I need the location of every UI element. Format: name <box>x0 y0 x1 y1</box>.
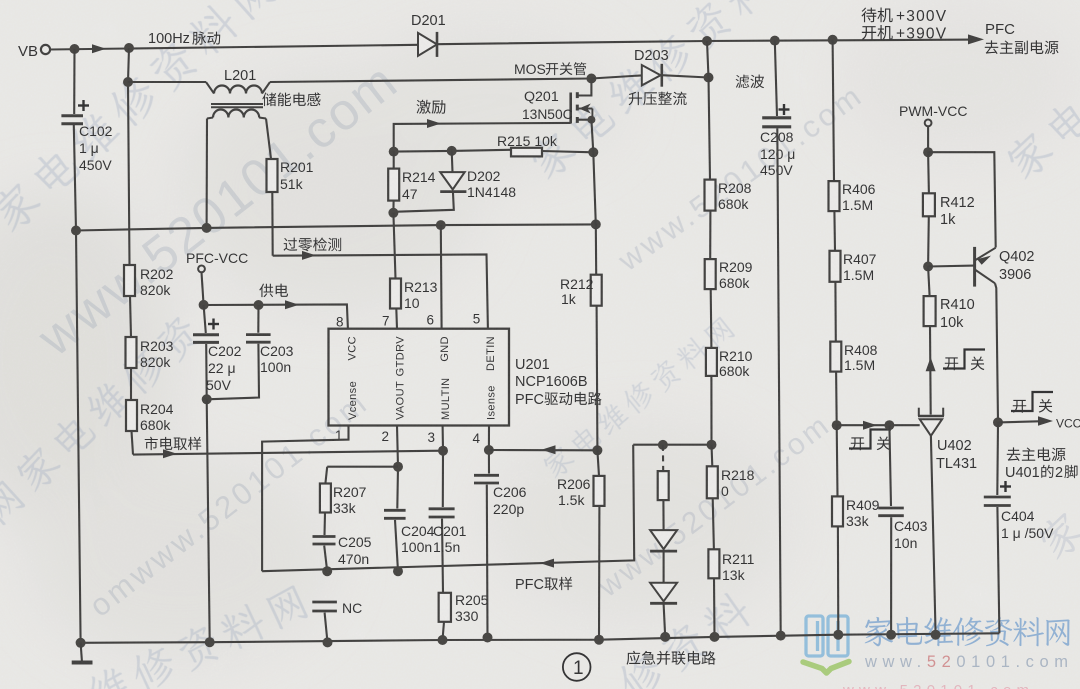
node gnd C102 <box>76 638 86 648</box>
logo green swoosh <box>803 662 849 674</box>
resistor R407 <box>830 251 841 282</box>
node rail-R212 column <box>591 219 601 229</box>
resistor R210 <box>706 348 717 376</box>
inductor L201 primary <box>206 82 214 94</box>
shunt regulator U402 TL431 <box>918 415 944 418</box>
node fb-clamp <box>658 440 668 450</box>
wire GND pin6 <box>440 225 443 329</box>
capacitor C102 <box>61 114 83 117</box>
inductor L201 secondary winding <box>207 118 213 119</box>
node D203 cathode <box>704 73 714 83</box>
label supply <box>259 284 288 298</box>
node Q402 base <box>923 262 933 272</box>
op-amp U201 PFC controller box <box>329 329 510 426</box>
node gnd R206 <box>594 635 604 645</box>
node drive-source <box>588 147 598 157</box>
wire C102 column <box>73 49 75 114</box>
label standby voltage <box>861 8 892 23</box>
node Isense-R206 <box>592 445 602 455</box>
node 100Hz branch <box>124 43 134 53</box>
inductor L201 core <box>211 103 263 105</box>
wire feedback node row <box>633 444 711 446</box>
label switch a <box>945 357 958 370</box>
node L201 branch <box>123 77 133 87</box>
label circled 1 <box>563 653 591 681</box>
resistor R410 <box>928 267 930 297</box>
wire VCC arrow <box>998 421 1043 422</box>
label mains sampling <box>145 437 201 450</box>
wire drive node row <box>394 150 511 152</box>
ground symbol <box>81 643 82 661</box>
resistor R211 <box>708 549 719 578</box>
node R406 top junction <box>828 35 838 45</box>
wire secondary right to R201 <box>266 119 271 159</box>
node gnd R205 <box>438 635 448 645</box>
node gnd clamp <box>660 632 670 642</box>
node drive-D202 <box>447 146 457 156</box>
wire to inductor <box>128 81 206 83</box>
wire mains sampling to MULTIN <box>133 451 443 455</box>
diode D203 <box>591 75 641 78</box>
node D203 top junction <box>702 36 712 46</box>
wire inductor to MOSFET drain <box>270 79 591 83</box>
label zero-cross detect <box>284 237 342 251</box>
resistor R204 <box>126 400 137 431</box>
node supply-C203 <box>254 300 264 310</box>
wire main ground rail <box>81 633 1000 643</box>
node pin3 MULTIN <box>438 446 448 456</box>
capacitor C204 <box>384 509 406 512</box>
diode D201 <box>418 33 437 56</box>
capacitor C208 <box>762 116 791 119</box>
resistor unlabeled clamp <box>662 445 664 471</box>
label to main power <box>1007 447 1066 461</box>
node gnd C208 <box>776 631 786 641</box>
capacitor NC <box>312 601 337 604</box>
node C202/C203 ground <box>202 394 212 404</box>
node R214/D202 bottom <box>388 208 398 218</box>
wire to R213 <box>393 213 395 279</box>
wire secondary left to gnd rail <box>206 119 208 228</box>
wire R406 column <box>833 40 834 181</box>
node gnd C206 <box>483 633 493 643</box>
resistor R214 <box>393 152 395 169</box>
capacitor C404 <box>996 422 999 495</box>
diode clamp 1 <box>650 530 677 549</box>
node gnd NC <box>323 637 333 647</box>
wire cap ground column <box>207 399 210 642</box>
capacitor C206 <box>474 474 499 477</box>
wire R208 column <box>709 78 711 180</box>
resistor R408 <box>830 342 841 372</box>
node C403 tap <box>884 420 894 430</box>
arrow 100Hz input <box>92 44 106 53</box>
resistor R409 <box>832 496 843 526</box>
wire Isense row <box>489 449 598 451</box>
node gnd R211 <box>710 632 720 642</box>
resistor R202 <box>124 265 135 296</box>
node top-left junction <box>70 44 80 54</box>
wire PFC-VCC to supply line <box>202 272 204 305</box>
resistor R412 <box>927 152 930 193</box>
node gnd R409 <box>833 630 843 640</box>
capacitor C203 <box>257 305 259 333</box>
capacitor C205 <box>323 513 326 536</box>
label switch b <box>851 437 864 450</box>
capacitor C403 <box>889 425 891 506</box>
resistor R206 <box>597 450 599 476</box>
node PWM split <box>923 147 933 157</box>
wire zero-cross detect <box>273 254 488 328</box>
node C208 top junction <box>770 36 780 46</box>
label power-on voltage <box>862 25 893 40</box>
node TL431 ref <box>832 420 842 430</box>
capacitor C201 <box>429 507 455 510</box>
arrow to PFC output <box>968 34 984 44</box>
resistor R215 <box>511 148 542 157</box>
node pin2-R207 <box>393 462 403 472</box>
wire pin4 column <box>488 426 490 474</box>
wire supply line to VCC pin8 <box>204 304 348 328</box>
node pin4 Isense <box>484 445 494 455</box>
wire PFC sample down-left <box>262 445 634 572</box>
resistor R207 <box>325 467 327 484</box>
label switch c <box>1013 400 1026 413</box>
node gnd caps <box>205 637 215 647</box>
wire D201 to PFC arrow <box>437 40 975 45</box>
node C205 bottom <box>322 566 332 576</box>
label filter <box>736 75 764 89</box>
label drive <box>417 100 446 114</box>
transistor Q201 MOSFET <box>586 74 596 84</box>
wire signal ground rail <box>76 224 596 230</box>
wire C208 column <box>775 41 777 116</box>
wire pin3 column <box>442 426 444 508</box>
resistor R218 <box>710 445 713 467</box>
logo book icon <box>806 616 848 656</box>
wire TL431 ref row <box>837 424 920 426</box>
wire D203 node up <box>707 41 709 78</box>
resistor R201 <box>267 159 278 192</box>
wire pin1 Vcense loop <box>262 426 348 572</box>
resistor R213 <box>390 279 401 309</box>
wire Q402 collector down <box>995 283 998 422</box>
wire VB to main top rail <box>50 45 418 50</box>
node C204 bottom <box>393 566 403 576</box>
node supply-C202 <box>199 300 209 310</box>
wire source down <box>591 120 593 153</box>
logo site name <box>865 616 1070 646</box>
label emergency parallel circuit <box>627 651 716 665</box>
wire mains divider column <box>128 48 130 265</box>
wire R207 top row <box>327 466 398 468</box>
transistor Q402 <box>928 265 974 268</box>
resistor R208 <box>705 180 716 211</box>
wire source to sense rail <box>593 152 596 224</box>
node rail-GND pin column <box>436 220 446 230</box>
wire R201 to ZCD line <box>271 192 274 256</box>
resistor R203 <box>126 337 137 368</box>
resistor R205 <box>439 593 451 622</box>
node rail-secondary <box>202 223 212 233</box>
node gnd C403 <box>886 630 896 640</box>
wire to Q402 emitter <box>928 152 996 247</box>
wire gate drive <box>394 123 571 152</box>
wire pin2 stub <box>397 426 398 509</box>
node VCC branch <box>993 417 1003 427</box>
node drive-R214 <box>389 147 399 157</box>
node fb-dividers <box>707 440 717 450</box>
resistor R212 <box>595 224 598 274</box>
node rail-C102 <box>71 226 81 236</box>
node gnd U402 <box>931 630 941 640</box>
resistor R209 <box>705 259 716 289</box>
arrow switch signal up <box>926 357 936 371</box>
node source <box>587 116 595 124</box>
diode clamp 2 <box>650 583 677 602</box>
resistor R406 <box>829 181 840 211</box>
diode D202 <box>451 151 454 172</box>
capacitor C202 <box>204 305 206 333</box>
